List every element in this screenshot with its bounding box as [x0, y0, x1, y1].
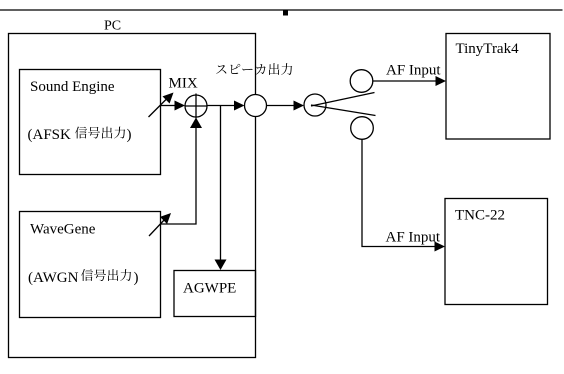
- Sound Engine box: [20, 70, 161, 175]
- svg-text:Sound Engine: Sound Engine: [30, 79, 115, 95]
- svg-text:TinyTrak4: TinyTrak4: [456, 41, 520, 57]
- wire: lower throw to TNC-22 AF Input: [362, 139, 436, 246]
- svg-text:WaveGene: WaveGene: [30, 222, 96, 238]
- mixer MIX circle: [185, 95, 207, 117]
- PC box: [9, 34, 256, 358]
- switch upper throw circle: [350, 70, 373, 93]
- wire: speaker node to switch pole: [267, 105, 296, 107]
- switch lower throw circle: [351, 117, 374, 140]
- node: speaker output circle on PC edge: [245, 95, 267, 117]
- svg-text:TNC-22: TNC-22: [455, 208, 505, 224]
- svg-text:MIX: MIX: [169, 76, 198, 92]
- wire: WaveGene to mixer (L-shape): [161, 128, 197, 224]
- level-adjust arrow on WaveGene output: [149, 218, 166, 236]
- AGWPE box: [174, 271, 256, 317]
- svg-text:AF Input: AF Input: [386, 63, 441, 79]
- wire: Sound Engine to mixer: [161, 105, 177, 107]
- WaveGene box: [20, 212, 161, 318]
- wire: upper throw to TinyTrak4 AF Input: [373, 80, 437, 82]
- svg-text:): ): [134, 270, 139, 286]
- TinyTrak4 box: [446, 34, 550, 140]
- svg-text:AGWPE: AGWPE: [183, 281, 236, 297]
- svg-text:PC: PC: [104, 19, 121, 34]
- label スピーカ出力: [216, 63, 292, 75]
- svg-text:(AWGN: (AWGN: [28, 270, 79, 286]
- switch SW pole circle: [304, 94, 326, 116]
- level-adjust arrow on Sound Engine output: [149, 98, 169, 118]
- svg-text:AF Input: AF Input: [386, 230, 441, 246]
- TNC-22 box: [445, 199, 548, 305]
- switch blade to lower throw: [311, 105, 376, 116]
- node handle on top line: [283, 11, 288, 16]
- wire: top horizontal line: [0, 9, 563, 11]
- wire: branch down to AGWPE: [220, 106, 222, 261]
- svg-text:(AFSK: (AFSK: [28, 127, 72, 143]
- switch blade to upper throw: [311, 93, 375, 107]
- wire: mixer to speaker-out node: [207, 105, 235, 107]
- svg-text:): ): [127, 127, 132, 143]
